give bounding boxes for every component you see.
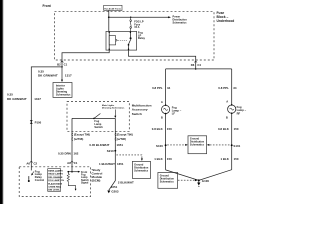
svg-text:162: 162 — [74, 152, 79, 156]
svg-text:Schematics: Schematics — [173, 22, 188, 25]
pin dot coil bottom — [109, 49, 110, 50]
connector A9 C1 — [71, 161, 74, 163]
svg-text:150: 150 — [167, 157, 172, 161]
svg-text:0.35: 0.35 — [7, 92, 13, 96]
label 0.35 DK GRN/WHT 1317 upper — [38, 69, 72, 77]
wire branch to interior lights — [61, 67, 63, 80]
multifunction switch dashed box — [67, 102, 129, 132]
svg-text:(Except T96): (Except T96) — [117, 133, 133, 137]
label Multifunction Accessory Switch — [132, 103, 152, 116]
svg-text:A6: A6 — [26, 162, 30, 166]
svg-text:150: 150 — [234, 157, 239, 161]
page edge black bar — [0, 0, 3, 204]
splice S101 — [231, 144, 233, 146]
svg-text:Accessory: Accessory — [132, 108, 148, 112]
svg-text:Multifunction: Multifunction — [132, 103, 152, 107]
svg-text:C1: C1 — [74, 161, 78, 165]
svg-text:Front: Front — [43, 4, 52, 8]
svg-text:0.8 PPL: 0.8 PPL — [152, 86, 163, 90]
svg-text:S210: S210 — [107, 149, 114, 153]
svg-text:Schematics: Schematics — [160, 180, 175, 183]
switch rail — [72, 117, 115, 119]
wire bus to fuse distribution — [109, 16, 169, 18]
svg-text:HEAD LAMPS: HEAD LAMPS — [48, 173, 63, 176]
connector B2 C1 — [61, 61, 64, 63]
driver fog lamp relay control — [32, 172, 34, 175]
pin dot coil top — [109, 32, 110, 33]
svg-text:LF: LF — [172, 112, 176, 116]
dashed ref S100 — [167, 144, 184, 146]
node signal junction — [71, 171, 73, 173]
dashed ref G100 — [178, 179, 195, 181]
arrow to fuse distribution schematics — [168, 16, 171, 18]
box ground distribution schematics 3 — [158, 173, 178, 189]
svg-text:34: 34 — [233, 86, 237, 90]
fuse block underhood dashed box — [55, 12, 215, 60]
label Main Lights Dimming Schematics — [102, 104, 125, 110]
BCM dashed box — [19, 167, 90, 197]
svg-text:C1: C1 — [64, 63, 68, 67]
wire switch left leg — [71, 118, 73, 161]
label Body Control Module — [92, 168, 103, 183]
svg-text:(BCM): (BCM) — [92, 179, 101, 183]
relay coil — [109, 36, 115, 45]
svg-text:Hot At All Times: Hot At All Times — [104, 7, 122, 10]
wire V to G100 — [166, 170, 232, 181]
svg-text:150: 150 — [167, 127, 172, 131]
wire A6 into BCM — [30, 161, 32, 170]
label Fog Lamp Switch — [94, 119, 103, 129]
node fuse tap — [130, 17, 131, 18]
relay coil wire — [108, 31, 110, 50]
actuator dashed link — [118, 39, 128, 41]
svg-text:0.8 BLK: 0.8 BLK — [152, 127, 164, 131]
label Power Distribution Schematics — [173, 15, 188, 24]
labels except T96 left — [74, 133, 90, 142]
svg-text:1 BLK: 1 BLK — [220, 157, 229, 161]
wire coil to B2 connector — [62, 50, 109, 67]
ref arrow into rail — [114, 110, 116, 117]
svg-text:C2: C2 — [34, 162, 38, 166]
svg-text:G203: G203 — [111, 190, 119, 194]
relay box — [106, 31, 137, 50]
svg-text:A: A — [226, 100, 228, 104]
svg-text:A: A — [161, 100, 163, 104]
wire feed left lamp — [165, 69, 167, 106]
svg-text:FOG LAMP ON: FOG LAMP ON — [48, 179, 64, 182]
svg-text:Underhood: Underhood — [217, 19, 235, 23]
label 0.35 DK GRN/WHT 1317 lower — [7, 92, 41, 101]
svg-text:150: 150 — [234, 127, 239, 131]
svg-text:0.35 DRN: 0.35 DRN — [58, 152, 71, 156]
inline connector arcs left — [72, 133, 73, 140]
relay switch — [129, 31, 131, 38]
svg-text:Dimming Schematics: Dimming Schematics — [102, 107, 125, 110]
svg-text:2 BLK/WHT: 2 BLK/WHT — [118, 180, 134, 184]
svg-text:PARK LAMPS: PARK LAMPS — [48, 169, 63, 172]
svg-text:B: B — [161, 115, 163, 119]
svg-text:S101: S101 — [233, 144, 240, 148]
inline connector arcs right — [115, 133, 116, 140]
wire to pullup — [68, 171, 72, 173]
svg-text:DK GRN/WHT: DK GRN/WHT — [7, 97, 27, 101]
fog lamp switch blade — [93, 118, 95, 120]
label FOG LP Fuse 15 A — [134, 20, 144, 29]
svg-text:D6: D6 — [191, 63, 195, 67]
wire feed right lamp — [231, 69, 233, 105]
node lamp feed tee — [195, 68, 197, 70]
ground G203 — [107, 191, 110, 194]
svg-text:CHIME REQ: CHIME REQ — [48, 187, 61, 189]
wire A9 into BCM — [71, 161, 73, 172]
BCM logic list box — [48, 169, 61, 192]
grommet P100 — [30, 120, 33, 123]
wire switch right leg — [114, 118, 116, 150]
wire relay output to D6 — [129, 50, 196, 69]
fuse FOG LP 15A — [130, 17, 132, 31]
svg-text:15 A: 15 A — [134, 26, 139, 29]
svg-text:Schematics: Schematics — [190, 144, 205, 147]
svg-text:Main Lights: Main Lights — [102, 104, 115, 107]
wire RF ground run — [231, 113, 233, 169]
box interior lights dimming schematics — [53, 83, 72, 98]
ground G100 — [198, 180, 200, 182]
svg-text:Schematics: Schematics — [56, 93, 71, 97]
label Fog Lamp Relay Control — [35, 169, 45, 182]
svg-text:Switch: Switch — [94, 125, 103, 129]
wire resistor return — [68, 183, 75, 189]
svg-text:1 BLK: 1 BLK — [154, 157, 163, 161]
wire hot feed down — [108, 10, 110, 31]
svg-text:Signal: Signal — [81, 182, 89, 185]
svg-text:DK GRN/WHT: DK GRN/WHT — [38, 74, 58, 78]
node split 1317 — [61, 66, 63, 68]
svg-text:1651: 1651 — [117, 162, 124, 166]
svg-text:1317: 1317 — [34, 97, 41, 101]
svg-text:C4: C4 — [197, 63, 201, 67]
wire S210 to G203 — [109, 151, 116, 190]
svg-text:Relay: Relay — [138, 36, 146, 40]
svg-text:FLASH PASS: FLASH PASS — [48, 182, 62, 185]
wire lamp feed rail — [166, 68, 232, 70]
svg-text:A9: A9 — [67, 161, 71, 165]
svg-text:Switch: Switch — [132, 112, 142, 116]
svg-text:1 BLK/WHT: 1 BLK/WHT — [99, 162, 115, 166]
dashed ref S101 — [210, 144, 230, 146]
label Front Fog Lamp Switch Signal — [81, 171, 89, 185]
svg-text:Schematics: Schematics — [134, 169, 149, 172]
svg-text:B: B — [226, 116, 228, 120]
svg-text:RF: RF — [237, 111, 241, 115]
label Fog LP Relay — [138, 31, 146, 41]
node bus junction — [108, 16, 110, 18]
Hot At All Times box — [104, 5, 122, 10]
svg-text:DIM LEVEL: DIM LEVEL — [48, 190, 60, 192]
svg-text:DRL ENABLE: DRL ENABLE — [48, 176, 63, 179]
labels except T96 right — [117, 133, 133, 142]
box ground distribution schematics 2 — [188, 136, 207, 154]
box ground distribution schematics 1 — [132, 161, 150, 178]
svg-text:S100: S100 — [156, 144, 163, 148]
svg-text:1651: 1651 — [117, 143, 124, 147]
svg-text:G100: G100 — [202, 179, 210, 183]
svg-text:0.8 PPL: 0.8 PPL — [218, 86, 229, 90]
wire LF ground run — [165, 114, 167, 170]
svg-text:B2: B2 — [57, 63, 61, 67]
resistor pullup — [67, 172, 69, 184]
svg-text:1317: 1317 — [65, 74, 72, 78]
svg-text:Control: Control — [35, 178, 45, 182]
svg-text:0.35 BLK/WHT: 0.35 BLK/WHT — [89, 143, 109, 147]
node G100 — [198, 179, 200, 181]
svg-text:0.8 BLK: 0.8 BLK — [218, 127, 230, 131]
svg-text:1651: 1651 — [111, 185, 118, 189]
svg-text:34: 34 — [167, 86, 171, 90]
wire 1317 left run — [31, 67, 62, 161]
svg-text:(w/T96): (w/T96) — [74, 137, 84, 141]
svg-text:(w/T96): (w/T96) — [117, 137, 127, 141]
arrow switch signal — [72, 171, 79, 173]
dashed ref S210 to ground distribution — [116, 155, 141, 159]
label Fuse Block Underhood — [217, 11, 235, 23]
svg-text:(Except T96): (Except T96) — [74, 133, 90, 137]
connector D6 C4 — [194, 61, 197, 63]
connector A6 C2 — [30, 161, 33, 163]
svg-text:P100: P100 — [35, 121, 42, 125]
